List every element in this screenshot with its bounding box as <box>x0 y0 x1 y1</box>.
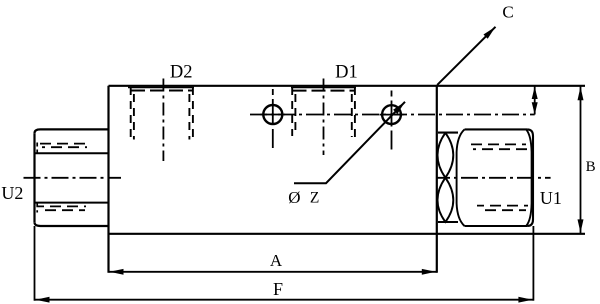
svg-text:D2: D2 <box>170 63 193 83</box>
svg-text:F: F <box>273 279 283 299</box>
svg-text:U1: U1 <box>540 188 562 208</box>
svg-text:B: B <box>586 159 596 175</box>
svg-text:U2: U2 <box>1 183 23 203</box>
svg-text:D1: D1 <box>335 63 358 83</box>
svg-text:C: C <box>502 2 513 21</box>
svg-text:A: A <box>270 251 283 270</box>
svg-text:Ø: Ø <box>288 188 300 207</box>
svg-text:Z: Z <box>310 190 319 207</box>
